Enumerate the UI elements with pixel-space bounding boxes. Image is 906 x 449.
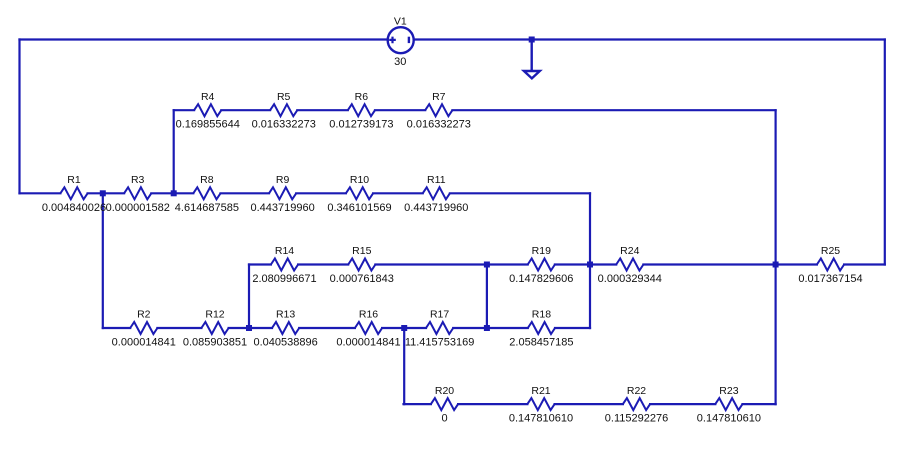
junction — [773, 262, 779, 268]
wire — [453, 327, 528, 329]
resistor R13 — [253, 309, 317, 349]
resistor R9 — [250, 174, 314, 214]
resistor R12 — [183, 309, 247, 349]
resistor R10 — [327, 174, 391, 214]
resistor R17 — [405, 309, 475, 349]
wire — [298, 263, 348, 265]
wire — [173, 110, 175, 193]
wire — [458, 403, 527, 405]
resistor R3 — [106, 174, 170, 214]
svg-text:0: 0 — [441, 413, 447, 425]
wire — [221, 109, 270, 111]
wire — [589, 193, 591, 328]
resistor R23 — [697, 385, 761, 425]
svg-text:11.415753169: 11.415753169 — [405, 337, 475, 349]
wire — [650, 403, 715, 405]
wire — [555, 403, 623, 405]
resistor R18 — [509, 309, 573, 349]
svg-text:30: 30 — [394, 56, 406, 68]
svg-text:R17: R17 — [430, 309, 449, 321]
resistor R21 — [509, 385, 573, 425]
wire — [375, 109, 425, 111]
wire — [249, 263, 271, 265]
resistor R22 — [605, 385, 668, 425]
svg-text:0.147810610: 0.147810610 — [697, 413, 761, 425]
svg-text:0.443719960: 0.443719960 — [404, 202, 468, 214]
wire — [297, 109, 348, 111]
svg-text:0.004840026: 0.004840026 — [42, 202, 106, 214]
wire — [296, 192, 346, 194]
wire — [643, 263, 817, 265]
wire — [18, 40, 20, 194]
wire — [375, 263, 527, 265]
junction — [484, 325, 490, 331]
svg-text:R4: R4 — [201, 91, 215, 103]
wire — [88, 192, 125, 194]
resistor R15 — [330, 245, 394, 285]
svg-text:R9: R9 — [276, 174, 290, 186]
svg-text:R22: R22 — [627, 385, 646, 397]
resistor R20 — [431, 385, 458, 425]
svg-text:R18: R18 — [532, 309, 551, 321]
svg-text:4.614687585: 4.614687585 — [175, 202, 239, 214]
junction — [401, 325, 407, 331]
ground — [524, 41, 540, 78]
wire — [174, 109, 194, 111]
svg-text:0.115292276: 0.115292276 — [605, 413, 668, 425]
wire — [102, 193, 104, 328]
wire — [844, 263, 885, 265]
wire — [382, 327, 426, 329]
resistor R8 — [175, 174, 239, 214]
svg-text:2.080996671: 2.080996671 — [252, 273, 316, 285]
wire — [299, 327, 355, 329]
svg-text:0.000001582: 0.000001582 — [106, 202, 170, 214]
wire — [221, 192, 270, 194]
resistor R11 — [404, 174, 468, 214]
svg-text:R8: R8 — [200, 174, 214, 186]
wire — [450, 192, 590, 194]
wire — [774, 110, 776, 404]
svg-text:R5: R5 — [277, 91, 291, 103]
resistor R1 — [42, 174, 106, 214]
wire — [157, 327, 201, 329]
wire — [486, 265, 488, 329]
resistor R24 — [598, 245, 662, 285]
svg-text:0.169855644: 0.169855644 — [176, 119, 240, 131]
svg-text:R6: R6 — [355, 91, 369, 103]
svg-text:R24: R24 — [620, 245, 639, 257]
svg-text:V1: V1 — [394, 15, 407, 27]
wire — [20, 192, 61, 194]
svg-text:R2: R2 — [137, 309, 151, 321]
wire — [403, 328, 405, 404]
svg-text:0.000014841: 0.000014841 — [112, 337, 176, 349]
junction — [246, 325, 252, 331]
resistor R25 — [798, 245, 862, 285]
wire — [884, 40, 886, 265]
svg-text:0.000014841: 0.000014841 — [336, 337, 400, 349]
wire — [555, 263, 616, 265]
wire — [452, 109, 775, 111]
svg-text:0.346101569: 0.346101569 — [327, 202, 391, 214]
svg-text:R15: R15 — [352, 245, 371, 257]
svg-text:R25: R25 — [821, 245, 840, 257]
svg-text:R23: R23 — [719, 385, 738, 397]
resistor R6 — [329, 91, 393, 131]
resistor R16 — [336, 309, 400, 349]
resistor R5 — [252, 91, 316, 131]
svg-text:R19: R19 — [532, 245, 551, 257]
svg-text:2.058457185: 2.058457185 — [509, 337, 573, 349]
svg-text:R1: R1 — [67, 174, 81, 186]
wire — [555, 327, 590, 329]
junction — [171, 190, 177, 196]
junction — [587, 262, 593, 268]
junction — [529, 37, 535, 43]
svg-text:0.012739173: 0.012739173 — [329, 119, 393, 131]
svg-text:0.016332273: 0.016332273 — [252, 119, 316, 131]
resistor R2 — [112, 309, 176, 349]
svg-text:0.000329344: 0.000329344 — [598, 273, 662, 285]
wire — [248, 265, 250, 329]
svg-text:R20: R20 — [435, 385, 454, 397]
wire — [103, 327, 130, 329]
svg-text:0.000761843: 0.000761843 — [330, 273, 394, 285]
wire — [151, 192, 193, 194]
svg-text:0.443719960: 0.443719960 — [250, 202, 314, 214]
resistor R7 — [407, 91, 471, 131]
resistor R4 — [176, 91, 240, 131]
svg-text:0.147810610: 0.147810610 — [509, 413, 573, 425]
svg-text:0.040538896: 0.040538896 — [253, 337, 317, 349]
wire — [404, 403, 431, 405]
wire — [414, 38, 885, 40]
junction — [100, 190, 106, 196]
svg-text:R10: R10 — [350, 174, 369, 186]
junction — [484, 262, 490, 268]
svg-text:R16: R16 — [359, 309, 378, 321]
resistor R19 — [509, 245, 573, 285]
voltage source V1 — [388, 15, 414, 68]
svg-text:R13: R13 — [276, 309, 295, 321]
svg-text:0.017367154: 0.017367154 — [798, 273, 862, 285]
svg-text:R14: R14 — [275, 245, 294, 257]
svg-text:0.085903851: 0.085903851 — [183, 337, 247, 349]
svg-text:0.016332273: 0.016332273 — [407, 119, 471, 131]
svg-text:0.147829606: 0.147829606 — [509, 273, 573, 285]
wire — [229, 327, 272, 329]
svg-text:R7: R7 — [432, 91, 446, 103]
svg-text:R12: R12 — [205, 309, 224, 321]
wire — [743, 403, 776, 405]
resistor R14 — [252, 245, 316, 285]
svg-text:R3: R3 — [131, 174, 145, 186]
svg-text:R11: R11 — [427, 174, 446, 186]
svg-text:R21: R21 — [531, 385, 550, 397]
wire — [20, 38, 388, 40]
wire — [373, 192, 423, 194]
